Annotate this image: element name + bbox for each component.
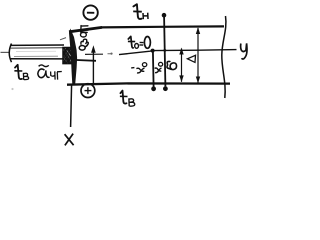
- small dot at axis crossing: [163, 49, 166, 52]
- stray dot: [110, 53, 112, 55]
- short bar under joint: [77, 59, 97, 62]
- y axis main line: [119, 50, 237, 55]
- X axis line: [71, 84, 72, 127]
- bottom dot of x0 line: [163, 86, 168, 91]
- vertical line at x0: [164, 17, 165, 86]
- shaft bottom edge: [10, 58, 64, 60]
- top dot of x0 line: [162, 13, 167, 18]
- hatched joint block: [63, 47, 72, 64]
- delta dimension arrow: [181, 49, 183, 82]
- shaft inner top line: [10, 47, 63, 49]
- Delta dimension arrow: [197, 28, 199, 83]
- label t_n (top): [133, 4, 148, 19]
- faint paper speck: [11, 88, 13, 90]
- label t_v (bottom): [120, 91, 135, 107]
- junction dot on axis: [151, 49, 155, 53]
- label alpha-tilde chg (left): [38, 65, 62, 80]
- label x0: [155, 62, 163, 72]
- label X: [65, 134, 74, 146]
- minus sign in circle (top): [83, 5, 97, 19]
- vertical line at -x0: [152, 51, 155, 87]
- label y (axis): [241, 43, 247, 59]
- bottom dot of -x0 line: [151, 86, 156, 91]
- y axis centerline dash: [108, 53, 111, 55]
- plate top edge: [69, 27, 102, 31]
- shaft top edge: [10, 44, 64, 46]
- label delta_zap (rotated, at joint): [79, 26, 88, 50]
- label t0=0: [128, 36, 150, 48]
- shaft inner shading: [16, 50, 56, 52]
- plus sign in circle (bottom): [81, 84, 95, 98]
- plate bottom edge: [67, 83, 230, 84]
- shaft left end cap: [9, 44, 11, 63]
- shaft centerline stub: [1, 51, 10, 53]
- small tick above joint: [60, 38, 66, 40]
- break line (wavy cut): [222, 16, 226, 98]
- label t_v (left, under shaft): [14, 65, 28, 80]
- label -x0: [131, 63, 147, 73]
- label delta (rotated, plate half thickness): [167, 61, 177, 69]
- plate thick left edge: [69, 29, 77, 85]
- up arrow at joint: [92, 52, 94, 84]
- label Delta (rotated triangle): [187, 55, 195, 62]
- y axis centerline segment a: [85, 53, 103, 55]
